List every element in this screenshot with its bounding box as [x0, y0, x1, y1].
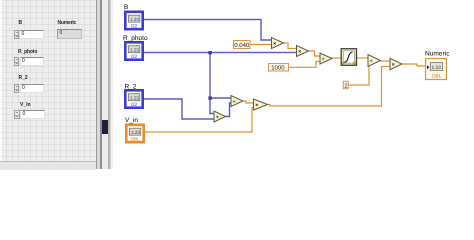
control R_2 field [20, 84, 45, 93]
svg-text:×: × [273, 41, 276, 47]
indicator Numeric (panel) label [58, 20, 77, 26]
constant 0.040 [234, 41, 251, 49]
wire E output to Numeric terminal [402, 64, 426, 66]
scrollbar thumb [102, 120, 108, 134]
multiply T2 [297, 46, 309, 57]
svg-text:Numeric: Numeric [425, 51, 450, 58]
wire R_photo branch vertical [210, 53, 214, 114]
svg-text:×: × [298, 49, 301, 55]
panel bottom scrollbar strip [0, 161, 96, 170]
wire power icon to D2 [357, 57, 369, 59]
svg-text:×: × [255, 103, 258, 109]
control R_photo field [20, 57, 45, 66]
wire divide D to power icon [332, 57, 341, 59]
multiply T8 [254, 99, 268, 110]
wire T8 long output to E [268, 67, 391, 107]
svg-text:DBL: DBL [131, 137, 141, 143]
add T6 [214, 111, 226, 122]
control R_2 spinner [14, 84, 20, 93]
wire add T6 output to divide T7 [226, 103, 232, 117]
multiply T1 [272, 38, 284, 49]
control B field [19, 30, 44, 40]
control B spinner [14, 30, 20, 40]
svg-text:1.23: 1.23 [130, 96, 139, 101]
block diagram SVG [0, 0, 474, 169]
control R_photo label [18, 49, 37, 55]
divide T7 [231, 96, 243, 107]
node junction R_photo top [208, 51, 211, 54]
control V_in field [20, 110, 45, 119]
power icon U1 [341, 49, 356, 66]
wire T7 output to T8 [243, 101, 254, 103]
multiply E [390, 58, 402, 69]
wire R_photo horizontal [144, 52, 297, 54]
wire constant 2 to D2 [348, 63, 369, 85]
front panel background with grid [0, 0, 96, 169]
wire T2 output to divide D [309, 51, 321, 56]
svg-text:1000: 1000 [271, 65, 285, 72]
wire T1 output to T2 [284, 43, 297, 49]
svg-text:R_photo: R_photo [123, 35, 148, 42]
svg-text:R_2: R_2 [125, 84, 137, 91]
svg-text:1.23: 1.23 [131, 130, 140, 135]
svg-text:1.23: 1.23 [130, 48, 139, 53]
wire R_2 to add T6 [144, 99, 214, 119]
indicator Numeric (panel) field [57, 29, 82, 39]
divide D [320, 53, 332, 64]
panel left highlight edge [0, 0, 2, 169]
svg-text:B: B [124, 4, 128, 11]
wire constant 1000 to divide D [289, 62, 320, 68]
constant 1000 [269, 64, 289, 72]
svg-text:×: × [392, 62, 395, 68]
wire B to multiply T1 [144, 20, 272, 41]
control V_in spinner [14, 110, 20, 119]
control R_2 label [19, 75, 28, 81]
wire D2 output to E [381, 60, 391, 62]
wire constant 0.040 to T1 [250, 44, 272, 46]
svg-text:0.040: 0.040 [234, 42, 250, 49]
divide D2 [368, 55, 381, 67]
control V_in label [20, 102, 31, 108]
svg-text:I32: I32 [131, 102, 138, 108]
svg-text:V_in: V_in [125, 117, 138, 124]
indicator terminal Numeric [426, 59, 447, 80]
control R_photo spinner [14, 57, 20, 66]
wire junction to divide T7 [210, 97, 231, 99]
svg-text:÷: ÷ [370, 59, 373, 65]
terminal B [125, 12, 142, 30]
control B label [19, 20, 23, 26]
front panel vertical scrollbar [96, 0, 97, 169]
constant 2 [343, 81, 348, 89]
svg-text:+: + [216, 115, 219, 121]
svg-text:÷: ÷ [233, 99, 236, 105]
svg-text:1.23: 1.23 [432, 65, 442, 71]
svg-text:DBL: DBL [432, 73, 442, 79]
svg-text:1.23: 1.23 [130, 17, 139, 22]
terminal R_2 [125, 90, 142, 108]
node junction R_photo lower [208, 96, 211, 99]
terminal V_in [126, 125, 143, 143]
svg-text:÷: ÷ [322, 57, 325, 63]
svg-text:I32: I32 [131, 24, 138, 30]
terminal R_photo [125, 42, 142, 60]
wire V_in to multiply T8 [145, 108, 254, 133]
svg-text:I32: I32 [131, 54, 138, 60]
